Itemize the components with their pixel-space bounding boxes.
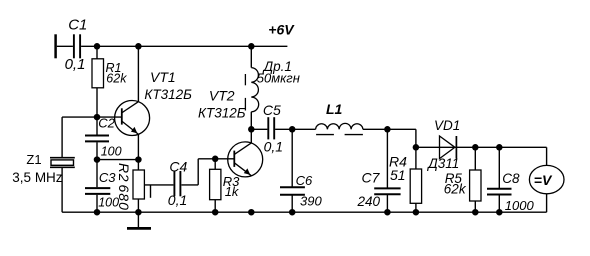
svg-text:C5: C5: [263, 102, 281, 118]
svg-text:50мкгн: 50мкгн: [257, 70, 300, 85]
svg-text:0,1: 0,1: [264, 139, 283, 155]
svg-text:390: 390: [300, 193, 322, 208]
svg-text:62k: 62k: [444, 182, 467, 197]
svg-text:Z1: Z1: [26, 152, 41, 167]
svg-text:680: 680: [116, 185, 132, 211]
svg-text:C6: C6: [296, 173, 313, 188]
svg-text:100: 100: [101, 144, 122, 158]
svg-text:1000: 1000: [505, 198, 535, 213]
svg-text:=V: =V: [534, 172, 553, 188]
svg-text:VT2: VT2: [209, 87, 235, 103]
svg-text:51: 51: [390, 167, 406, 183]
svg-text:C3: C3: [99, 170, 116, 185]
svg-text:C2: C2: [98, 116, 115, 131]
svg-text:+6V: +6V: [268, 22, 295, 38]
svg-text:240: 240: [357, 194, 381, 209]
svg-text:62k: 62k: [106, 72, 127, 86]
svg-text:C4: C4: [169, 158, 187, 174]
svg-text:C1: C1: [68, 16, 87, 33]
svg-text:КТ312Б: КТ312Б: [144, 87, 192, 102]
svg-text:3,5 MHz: 3,5 MHz: [12, 170, 63, 185]
svg-text:C7: C7: [362, 170, 381, 186]
svg-text:КТ312Б: КТ312Б: [198, 106, 246, 121]
svg-text:0,1: 0,1: [65, 56, 86, 73]
svg-text:C8: C8: [502, 171, 520, 186]
svg-text:1k: 1k: [225, 184, 240, 199]
svg-text:VT1: VT1: [150, 69, 176, 85]
svg-text:L1: L1: [326, 101, 343, 117]
svg-text:Д311: Д311: [426, 156, 459, 171]
svg-text:VD1: VD1: [434, 118, 460, 133]
svg-text:0,1: 0,1: [168, 192, 187, 208]
svg-text:R2: R2: [116, 163, 132, 182]
